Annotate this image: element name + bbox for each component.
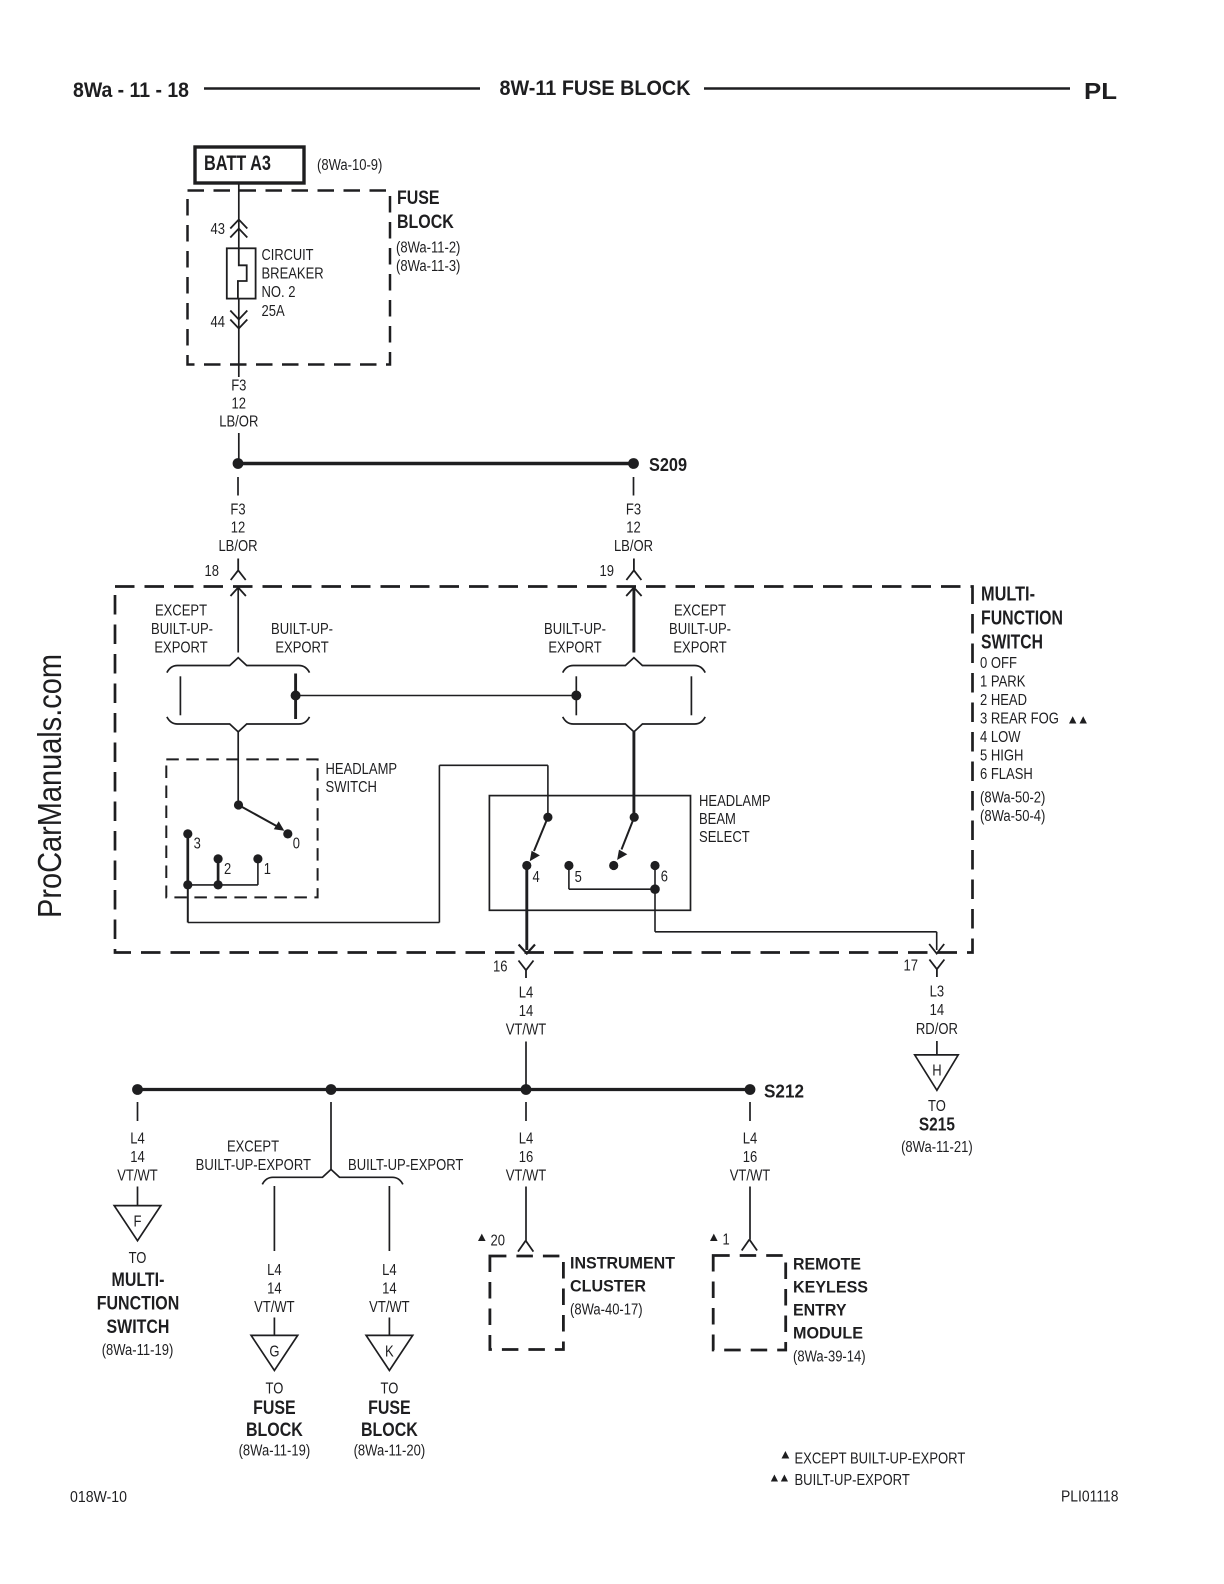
wire branch 2 left leg — [273, 1186, 275, 1251]
svg-text:SWITCH: SWITCH — [981, 632, 1043, 654]
svg-text:CLUSTER: CLUSTER — [570, 1277, 646, 1296]
centre contact (position shown) — [609, 861, 618, 870]
svg-text:CIRCUIT: CIRCUIT — [262, 247, 314, 264]
wire label L4 14 VT/WT (branch 2 right) — [369, 1262, 410, 1316]
svg-text:L4: L4 — [267, 1262, 282, 1279]
off-page connector F — [114, 1206, 161, 1241]
contact 4 — [522, 861, 540, 886]
svg-text:BUILT-UP-: BUILT-UP- — [544, 621, 606, 638]
svg-text:BUILT-UP-EXPORT: BUILT-UP-EXPORT — [196, 1157, 312, 1174]
beam select left arm with arrow to contact 4 — [530, 817, 548, 861]
svg-text:TO: TO — [928, 1098, 946, 1115]
wire BATT A3 down to circuit breaker — [238, 183, 240, 248]
svg-text:4 LOW: 4 LOW — [980, 729, 1021, 746]
tie wire between selectors — [296, 695, 577, 697]
svg-text:MULTI-: MULTI- — [112, 1270, 165, 1291]
junction dot S212 branch 1 — [132, 1084, 143, 1095]
svg-text:EXPORT: EXPORT — [275, 640, 329, 657]
right selector branch wire (except built-up-export) — [690, 676, 692, 715]
svg-text:(8Wa-11-19): (8Wa-11-19) — [239, 1443, 311, 1460]
right selector branch wire (built-up-export) — [575, 676, 577, 715]
wire to connector G — [273, 1318, 275, 1336]
svg-text:6: 6 — [661, 869, 668, 886]
svg-text:FUSE: FUSE — [397, 188, 440, 209]
svg-text:8W-11 FUSE BLOCK: 8W-11 FUSE BLOCK — [500, 77, 691, 100]
right selector bottom brace — [563, 717, 706, 732]
svg-text:LB/OR: LB/OR — [219, 414, 258, 431]
svg-text:(8Wa-11-19): (8Wa-11-19) — [102, 1342, 174, 1359]
fuse block label — [396, 188, 460, 275]
svg-text:HEADLAMP: HEADLAMP — [699, 793, 771, 810]
wire branch 2 right leg — [388, 1186, 390, 1251]
wire label L4 16 VT/WT (branch 3) — [506, 1131, 547, 1185]
svg-text:25A: 25A — [262, 303, 286, 320]
svg-text:INSTRUMENT: INSTRUMENT — [570, 1254, 676, 1273]
switch position legend — [980, 655, 1059, 783]
wire contact 4 to pin 16 (bold with arrow) — [519, 866, 535, 954]
svg-text:EXCEPT: EXCEPT — [674, 603, 727, 620]
svg-text:L4: L4 — [382, 1262, 397, 1279]
footnote marks after 3 REAR FOG — [1069, 716, 1087, 723]
connector 16 female half — [493, 959, 534, 979]
junction dot S212 branch 2 — [326, 1084, 337, 1095]
remote keyless entry module dashed box — [713, 1256, 786, 1351]
svg-text:BUILT-UP-: BUILT-UP- — [151, 621, 213, 638]
svg-text:S209: S209 — [649, 455, 687, 475]
svg-text:HEADLAMP: HEADLAMP — [326, 761, 398, 778]
svg-text:EXPORT: EXPORT — [548, 640, 602, 657]
svg-text:BLOCK: BLOCK — [246, 1420, 303, 1441]
junction dot S212 — [745, 1084, 756, 1095]
svg-text:BUILT-UP-: BUILT-UP- — [271, 621, 333, 638]
svg-text:3: 3 — [194, 836, 201, 853]
wire contact 6 riser — [654, 866, 656, 890]
wire label L4 14 VT/WT (pin 16) — [506, 985, 547, 1039]
svg-text:8Wa - 11 - 18: 8Wa - 11 - 18 — [73, 79, 189, 102]
svg-text:18: 18 — [205, 563, 220, 580]
svg-text:4: 4 — [533, 869, 541, 886]
wire pin 17 to connector H — [936, 1041, 938, 1055]
svg-text:VT/WT: VT/WT — [117, 1168, 158, 1185]
connector 18 female half — [205, 559, 246, 581]
left selector top brace — [167, 658, 310, 673]
svg-text:(8Wa-50-4): (8Wa-50-4) — [980, 808, 1045, 825]
svg-text:12: 12 — [626, 520, 641, 537]
wire to connector K — [388, 1318, 390, 1336]
tie wire contacts 5-6 — [569, 888, 655, 890]
destination label TO FUSE BLOCK (8Wa-11-19) — [239, 1381, 311, 1460]
svg-text:LB/OR: LB/OR — [614, 538, 653, 555]
svg-text:44: 44 — [211, 314, 226, 331]
svg-text:L4: L4 — [743, 1131, 758, 1148]
connector 1 female half — [742, 1240, 757, 1251]
svg-text:12: 12 — [231, 520, 246, 537]
svg-text:(8Wa-10-9): (8Wa-10-9) — [317, 157, 382, 174]
svg-text:TO: TO — [266, 1381, 284, 1398]
wire label F3 12 LB/OR — [219, 378, 258, 431]
svg-text:5: 5 — [575, 869, 582, 886]
svg-text:MODULE: MODULE — [793, 1324, 863, 1343]
header rule left — [204, 87, 480, 90]
svg-text:14: 14 — [130, 1149, 145, 1166]
wire label L3 14 RD/OR (pin 17) — [916, 984, 958, 1039]
svg-text:0: 0 — [293, 836, 301, 853]
svg-text:16: 16 — [493, 959, 508, 976]
svg-text:(8Wa-40-17): (8Wa-40-17) — [570, 1302, 643, 1319]
svg-text:14: 14 — [519, 1003, 534, 1020]
svg-text:BLOCK: BLOCK — [397, 212, 454, 233]
wire route drop to beam select left pole — [547, 765, 549, 817]
svg-text:H: H — [932, 1063, 941, 1080]
svg-text:VT/WT: VT/WT — [506, 1022, 547, 1039]
svg-text:(8Wa-39-14): (8Wa-39-14) — [793, 1349, 866, 1366]
svg-text:PLI01118: PLI01118 — [1061, 1489, 1119, 1506]
wire drop to pin 17 with arrow — [929, 932, 944, 954]
svg-text:FUNCTION: FUNCTION — [97, 1294, 180, 1315]
svg-text:1 PARK: 1 PARK — [980, 674, 1026, 691]
wire contact 1 riser — [257, 859, 259, 885]
svg-text:2 HEAD: 2 HEAD — [980, 692, 1027, 709]
wire S212 branch 2 stub — [330, 1102, 332, 1170]
svg-text:EXCEPT BUILT-UP-EXPORT: EXCEPT BUILT-UP-EXPORT — [795, 1451, 966, 1468]
svg-text:G: G — [269, 1344, 279, 1361]
svg-text:14: 14 — [930, 1002, 945, 1019]
label built-up-export (left selector right branch) — [271, 621, 333, 657]
header rule right — [704, 87, 1070, 90]
svg-text:K: K — [385, 1344, 394, 1361]
svg-text:REMOTE: REMOTE — [793, 1255, 861, 1274]
connector 20 female half — [518, 1241, 533, 1252]
wire contact 5 riser — [568, 866, 570, 890]
right selector top brace — [563, 658, 706, 673]
destination label TO S215 — [901, 1098, 973, 1156]
svg-text:12: 12 — [232, 396, 247, 413]
svg-text:FUSE: FUSE — [368, 1398, 411, 1419]
label built-up-export (right selector left branch) — [544, 621, 606, 657]
off-page connector G — [251, 1335, 298, 1370]
wire right selector to beam select pole (bold) — [632, 732, 635, 817]
svg-text:KEYLESS: KEYLESS — [793, 1278, 868, 1297]
wire S209 right leg down — [633, 477, 635, 496]
battery feed box BATT A3 — [195, 147, 304, 183]
wire route riser — [438, 765, 440, 922]
svg-text:16: 16 — [519, 1149, 534, 1166]
connector 19 male half (pin 19) — [626, 588, 641, 597]
svg-text:S212: S212 — [764, 1082, 804, 1102]
svg-text:VT/WT: VT/WT — [254, 1299, 295, 1316]
svg-text:BREAKER: BREAKER — [262, 266, 324, 283]
footnote legend built-up-export — [771, 1472, 910, 1489]
wire branch 4 to remote keyless entry module — [749, 1187, 751, 1240]
wire S209 left leg down — [237, 477, 239, 496]
svg-text:(8Wa-11-21): (8Wa-11-21) — [901, 1139, 973, 1156]
headlamp beam select box — [489, 796, 690, 911]
multi-function switch dashed box — [115, 587, 973, 953]
svg-text:F3: F3 — [231, 378, 246, 395]
left selector branch wire (except built-up-export) — [179, 676, 181, 715]
svg-text:16: 16 — [743, 1149, 758, 1166]
svg-text:2: 2 — [224, 861, 231, 878]
wire branch 3 to instrument cluster — [525, 1187, 527, 1241]
svg-text:0 OFF: 0 OFF — [980, 655, 1017, 672]
wire contact 2 riser (bold) — [217, 859, 220, 885]
svg-text:BLOCK: BLOCK — [361, 1420, 418, 1441]
connector 19 female half — [600, 559, 642, 581]
svg-text:ENTRY: ENTRY — [793, 1301, 847, 1320]
svg-text:14: 14 — [267, 1281, 282, 1298]
svg-text:EXCEPT: EXCEPT — [227, 1139, 280, 1156]
svg-text:19: 19 — [600, 563, 615, 580]
svg-text:17: 17 — [904, 958, 919, 975]
tie wire contacts 1-2-3 — [188, 884, 258, 886]
off-page connector H — [915, 1055, 959, 1090]
left selector bottom brace — [167, 717, 310, 732]
contact 0 — [283, 829, 300, 852]
wire route to beam select (horizontal low) — [188, 922, 440, 924]
svg-text:L3: L3 — [930, 984, 945, 1001]
wire label L4 16 VT/WT (branch 4) — [730, 1131, 771, 1185]
switch reference labels — [980, 790, 1045, 826]
beam select right pole dot — [630, 813, 639, 822]
junction dot left of S209 — [233, 458, 244, 469]
wire branch 1 to connector F — [137, 1187, 139, 1206]
svg-text:TO: TO — [129, 1250, 147, 1267]
svg-text:L4: L4 — [519, 1131, 534, 1148]
headlamp beam select label — [699, 793, 771, 846]
svg-text:EXPORT: EXPORT — [154, 640, 208, 657]
wire label L4 14 VT/WT (branch 2 left) — [254, 1262, 295, 1316]
footnote mark and pin 20 — [478, 1233, 505, 1250]
svg-text:6 FLASH: 6 FLASH — [980, 766, 1033, 783]
off-page connector K — [366, 1335, 413, 1370]
headlamp switch pole dot — [234, 800, 243, 809]
svg-text:F3: F3 — [230, 502, 245, 519]
svg-text:5 HIGH: 5 HIGH — [980, 748, 1023, 765]
svg-text:EXPORT: EXPORT — [673, 640, 727, 657]
wire label F3 12 LB/OR (right leg) — [614, 502, 653, 556]
contact 6 — [650, 861, 668, 886]
svg-text:F: F — [134, 1214, 142, 1231]
svg-text:(8Wa-11-3): (8Wa-11-3) — [396, 258, 460, 275]
wire route to pin 17 — [655, 931, 937, 933]
wire circuit breaker to fuse F3 label — [238, 299, 240, 377]
headlamp switch arm with arrow to position 0 — [239, 805, 285, 831]
wire pin 19 to right selector (bold) — [632, 588, 635, 653]
svg-text:BUILT-UP-: BUILT-UP- — [669, 621, 731, 638]
splice S209 bus wire — [238, 462, 634, 465]
svg-text:VT/WT: VT/WT — [506, 1168, 547, 1185]
wire label F3 12 LB/OR (left leg) — [218, 502, 257, 556]
svg-text:LB/OR: LB/OR — [218, 538, 257, 555]
contact 3 — [183, 829, 201, 852]
svg-text:PL: PL — [1084, 78, 1117, 104]
svg-text:14: 14 — [382, 1281, 397, 1298]
circuit breaker no. 2 symbol — [227, 248, 256, 298]
svg-text:L4: L4 — [519, 985, 534, 1002]
instrument cluster label — [570, 1254, 676, 1319]
svg-text:018W-10: 018W-10 — [70, 1489, 127, 1506]
svg-text:S215: S215 — [919, 1115, 955, 1135]
footnote legend except built-up-export — [782, 1451, 966, 1468]
headlamp switch dashed box — [166, 759, 317, 897]
junction dot S209 — [628, 458, 639, 469]
fuse block dashed box — [188, 191, 391, 365]
connector pin 44 — [211, 311, 248, 332]
svg-text:SELECT: SELECT — [699, 829, 750, 846]
wire contact 3 riser (bold) — [186, 834, 189, 885]
svg-text:BUILT-UP-EXPORT: BUILT-UP-EXPORT — [348, 1157, 464, 1174]
contact 2 — [214, 854, 232, 877]
wire headlamp switch output drop — [187, 885, 189, 923]
svg-text:(8Wa-11-2): (8Wa-11-2) — [396, 240, 460, 257]
circuit breaker value label — [262, 247, 324, 320]
svg-text:1: 1 — [723, 1232, 730, 1249]
svg-text:(8Wa-11-20): (8Wa-11-20) — [354, 1443, 426, 1460]
wire S212 branch 3 stub — [525, 1102, 527, 1121]
contact 1 — [253, 854, 271, 877]
svg-text:FUSE: FUSE — [253, 1398, 296, 1419]
wire S212 branch 1 stub — [137, 1102, 139, 1121]
wire pin 18 to left selector — [237, 588, 239, 653]
footnote mark and pin 1 — [710, 1232, 730, 1249]
label except built-up-export (branch 2 left) — [196, 1139, 312, 1175]
svg-text:EXCEPT: EXCEPT — [155, 603, 208, 620]
svg-text:L4: L4 — [130, 1131, 145, 1148]
svg-text:RD/OR: RD/OR — [916, 1021, 958, 1038]
destination label TO MULTI-FUNCTION SWITCH — [97, 1250, 180, 1359]
label except built-up-export (left selector left branch) — [151, 603, 213, 657]
svg-text:MULTI-: MULTI- — [981, 584, 1035, 606]
multi-function switch label — [981, 584, 1063, 654]
svg-text:TO: TO — [381, 1381, 399, 1398]
wire left selector to headlamp switch — [237, 732, 239, 805]
junction dot below contact 2 — [214, 880, 223, 889]
svg-text:1: 1 — [264, 861, 271, 878]
svg-text:3 REAR FOG: 3 REAR FOG — [980, 711, 1059, 728]
junction dot S212 branch 3 — [521, 1084, 532, 1095]
label except built-up-export (right selector right branch) — [669, 603, 731, 657]
headlamp switch label — [326, 761, 398, 796]
wire label L4 14 VT/WT (branch 1) — [117, 1131, 158, 1185]
instrument cluster dashed box — [490, 1256, 564, 1350]
junction dot on left selector built-up-export branch — [291, 691, 301, 701]
destination label TO FUSE BLOCK (8Wa-11-20) — [354, 1381, 426, 1460]
junction dot on right selector built-up-export branch — [571, 691, 581, 701]
connector 18 male half (pin 18) — [231, 588, 246, 597]
connector 17 female half — [904, 958, 945, 978]
svg-text:VT/WT: VT/WT — [369, 1299, 410, 1316]
wire S212 branch 4 stub — [749, 1102, 751, 1121]
svg-text:43: 43 — [211, 221, 226, 238]
svg-text:(8Wa-50-2): (8Wa-50-2) — [980, 790, 1045, 807]
svg-text:BUILT-UP-EXPORT: BUILT-UP-EXPORT — [795, 1472, 911, 1489]
svg-text:ProCarManuals.com: ProCarManuals.com — [31, 654, 68, 918]
svg-text:F3: F3 — [626, 502, 641, 519]
svg-text:NO. 2: NO. 2 — [262, 284, 296, 301]
wire pin 16 to S212 — [525, 1042, 527, 1090]
svg-text:20: 20 — [491, 1233, 506, 1250]
remote keyless entry module label — [793, 1255, 868, 1366]
wire label to S209 splice — [238, 433, 240, 459]
splice S212 bus wire — [138, 1088, 751, 1091]
left selector branch wire (built-up-export, bold) — [294, 674, 297, 720]
svg-text:SWITCH: SWITCH — [326, 779, 377, 796]
wire contact 6 down — [654, 889, 656, 932]
wire route horizontal high — [439, 764, 548, 766]
branch 2 splitter brace — [262, 1169, 403, 1184]
connector pin 43 — [211, 220, 248, 239]
beam select left pole dot — [543, 813, 552, 822]
svg-text:BEAM: BEAM — [699, 811, 736, 828]
svg-text:BATT A3: BATT A3 — [204, 152, 271, 175]
svg-text:SWITCH: SWITCH — [107, 1317, 170, 1338]
svg-text:FUNCTION: FUNCTION — [981, 608, 1063, 630]
beam select right arm with arrow to centre contact — [617, 817, 634, 860]
contact 5 — [564, 861, 581, 886]
junction dot below contact 6 — [650, 884, 660, 894]
svg-text:VT/WT: VT/WT — [730, 1168, 771, 1185]
junction dot below contact 3 — [183, 880, 192, 889]
